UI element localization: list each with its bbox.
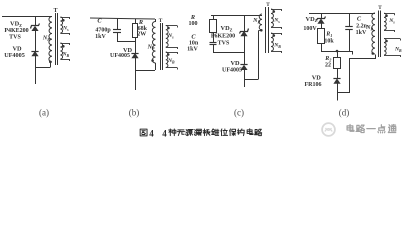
svg-text:4: 4: [162, 129, 167, 139]
svg-text:4700p: 4700p: [95, 28, 111, 34]
svg-text:R2: R2: [324, 56, 331, 62]
svg-text:T: T: [159, 18, 163, 24]
svg-text:NP: NP: [147, 45, 155, 51]
svg-text:TVS: TVS: [218, 40, 230, 46]
svg-text:T: T: [378, 5, 382, 11]
svg-text:(b): (b): [129, 108, 140, 118]
svg-text:FR106: FR106: [305, 82, 322, 88]
svg-text:1kV: 1kV: [356, 30, 367, 36]
svg-text:VD: VD: [312, 75, 322, 82]
svg-text:1kV: 1kV: [95, 34, 106, 40]
svg-text:R1: R1: [325, 32, 332, 38]
svg-text:NP: NP: [252, 18, 260, 24]
svg-text:4: 4: [149, 129, 154, 139]
svg-text:2W: 2W: [137, 32, 146, 38]
svg-text:T: T: [266, 2, 270, 8]
svg-text:100V: 100V: [303, 26, 317, 32]
svg-text:(c): (c): [234, 108, 244, 118]
svg-text:(d): (d): [339, 108, 350, 118]
svg-text:P4KE200: P4KE200: [4, 28, 28, 34]
svg-text:100: 100: [189, 21, 198, 27]
svg-text:VD: VD: [230, 60, 240, 67]
svg-text:NP: NP: [42, 36, 50, 42]
svg-text:P6KE200: P6KE200: [211, 33, 235, 39]
svg-text:UF4005: UF4005: [110, 53, 130, 59]
svg-text:T: T: [54, 8, 58, 14]
svg-text:22: 22: [325, 63, 331, 69]
svg-text:UF4005: UF4005: [222, 68, 242, 74]
svg-text:10k: 10k: [324, 38, 334, 44]
svg-text:(a): (a): [39, 108, 49, 118]
svg-text:TVS: TVS: [9, 35, 21, 41]
svg-text:UF4005: UF4005: [4, 52, 25, 59]
svg-text:2.2n: 2.2n: [356, 24, 368, 30]
svg-text:R: R: [190, 14, 195, 21]
svg-text:1kV: 1kV: [187, 47, 198, 53]
